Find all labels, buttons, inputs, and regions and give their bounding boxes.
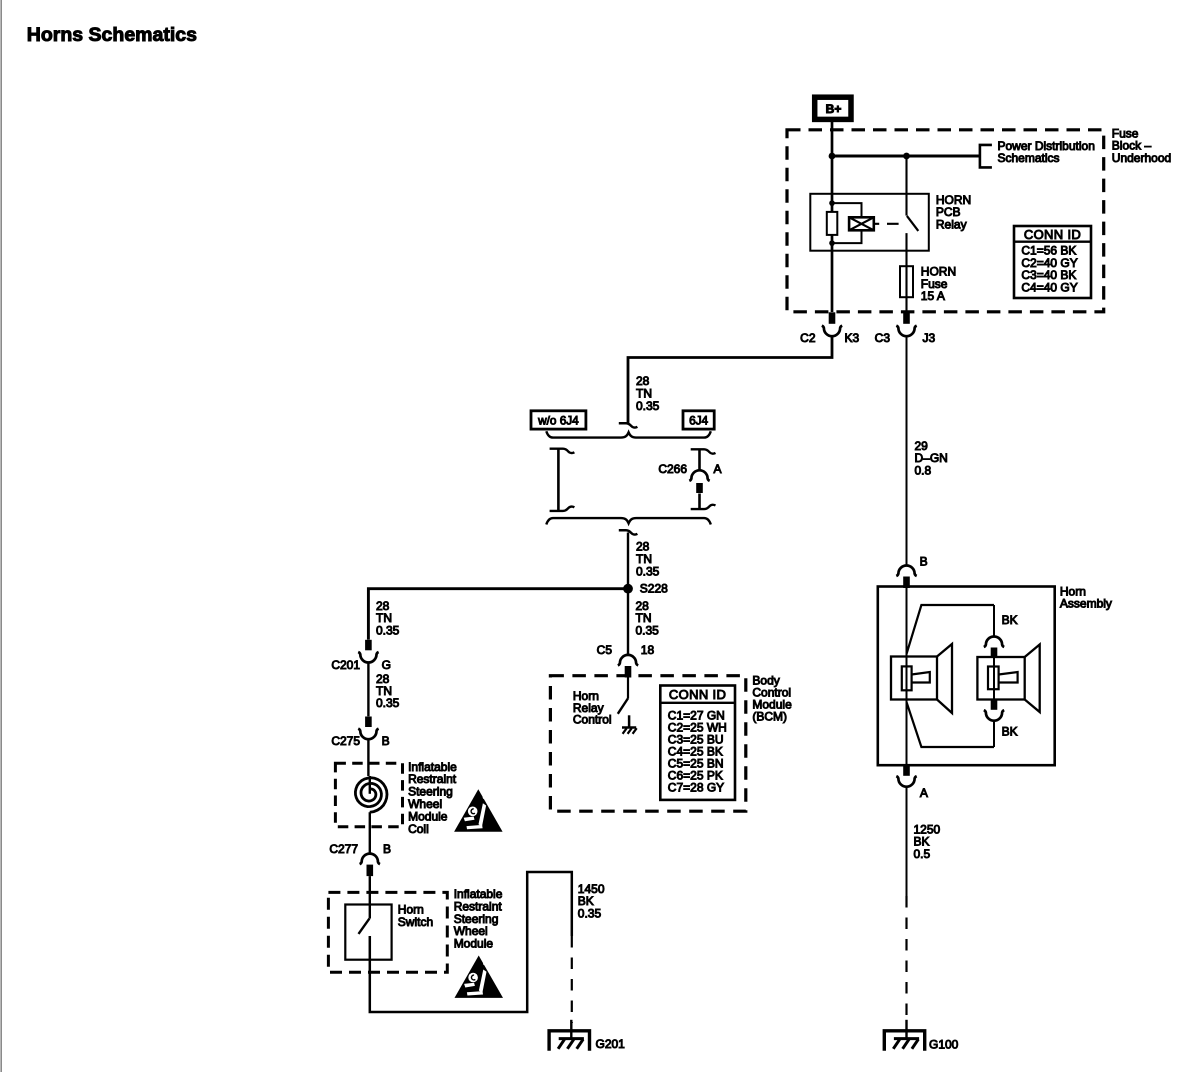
- svg-text:C2: C2: [800, 331, 816, 345]
- fuse block underhood dashed box: [787, 130, 1104, 312]
- svg-text:15 A: 15 A: [921, 289, 945, 303]
- svg-text:(BCM): (BCM): [752, 710, 787, 724]
- svg-text:B+: B+: [826, 102, 842, 116]
- wire end mark: [550, 507, 575, 511]
- wire option merge to S228: [627, 533, 629, 589]
- svg-text:C266: C266: [658, 462, 687, 476]
- wire C2 to middle branch, down to option split: [628, 336, 832, 424]
- SIR warning triangle (coil): [454, 789, 503, 831]
- svg-text:0.5: 0.5: [914, 847, 931, 861]
- wire end mark: [550, 449, 575, 453]
- power distribution reference bracket: [980, 145, 992, 168]
- svg-text:K3: K3: [845, 331, 860, 345]
- wire right horn bottom: [993, 720, 995, 747]
- svg-text:Relay: Relay: [936, 217, 967, 231]
- connector C2 K3: [829, 312, 836, 324]
- resistor (relay suppression): [827, 212, 838, 235]
- svg-text:C4=40 GY: C4=40 GY: [1021, 281, 1077, 295]
- dashed wire to G201: [571, 936, 573, 1023]
- svg-text:S228: S228: [640, 582, 668, 596]
- svg-text:G: G: [382, 658, 391, 672]
- svg-text:CONN ID: CONN ID: [1024, 227, 1081, 242]
- wire end mark: [619, 423, 638, 427]
- svg-text:Underhood: Underhood: [1112, 151, 1171, 165]
- ground G201: [549, 1031, 589, 1051]
- ground G100: [884, 1031, 924, 1051]
- svg-text:B: B: [382, 734, 390, 748]
- svg-text:C5: C5: [597, 643, 613, 657]
- junction dot: [829, 153, 836, 160]
- svg-text:B: B: [383, 842, 391, 856]
- svg-text:0.8: 0.8: [915, 463, 932, 477]
- svg-text:Schematics: Schematics: [998, 151, 1060, 165]
- wire S228 to left branch: [368, 589, 628, 640]
- svg-text:Assembly: Assembly: [1060, 597, 1112, 611]
- svg-text:A: A: [920, 786, 928, 800]
- connector C201 G: [365, 640, 372, 651]
- wire through left horn: [906, 588, 908, 765]
- svg-text:0.35: 0.35: [636, 623, 660, 637]
- svg-text:CONN ID: CONN ID: [669, 687, 726, 702]
- svg-text:G201: G201: [596, 1037, 626, 1051]
- right horn driver: [993, 658, 995, 700]
- horn switch blade: [359, 919, 370, 934]
- svg-text:18: 18: [641, 643, 655, 657]
- svg-text:C3: C3: [875, 331, 891, 345]
- wire C277 into horn switch: [369, 876, 371, 919]
- svg-text:Coil: Coil: [408, 822, 429, 836]
- svg-text:C277: C277: [329, 842, 358, 856]
- svg-text:Module: Module: [454, 937, 494, 951]
- option box 6J4: [683, 411, 714, 429]
- relay coil: [849, 217, 874, 230]
- relay coil-to-switch dashed link: [875, 223, 899, 225]
- connector C266 A (6J4 branch): [691, 449, 716, 453]
- wire J3 down to horn assembly B: [906, 336, 908, 567]
- horn link bottom (diagonal + horizontal): [907, 702, 995, 747]
- horn assembly box: [878, 587, 1055, 766]
- wire B+ down through relay to C2 pin: [831, 119, 834, 312]
- wire coil to C277: [369, 812, 371, 854]
- relay box outline: [810, 194, 929, 251]
- page edge line: [0, 0, 2, 1072]
- wire C5 into BCM: [627, 678, 629, 699]
- svg-text:BK: BK: [1002, 725, 1018, 739]
- svg-text:Control: Control: [573, 713, 612, 727]
- svg-text:0.35: 0.35: [578, 906, 602, 920]
- svg-text:0.35: 0.35: [636, 564, 660, 578]
- wire power bus: [832, 155, 980, 158]
- brace bottom (option merge): [546, 518, 711, 524]
- svg-text:0.35: 0.35: [376, 696, 400, 710]
- junction dot: [829, 240, 835, 246]
- dashed wire to G100: [905, 896, 907, 1022]
- splice S228: [623, 584, 633, 594]
- wire relay switch to fuse to C3 pin: [905, 233, 907, 312]
- wire bus to relay switch: [905, 156, 907, 216]
- svg-text:Horns Schematics: Horns Schematics: [27, 24, 197, 46]
- wire to right horn top: [993, 605, 995, 637]
- battery feed symbol B+: [815, 97, 851, 119]
- brace top (option split): [546, 431, 711, 437]
- wire start mark: [619, 530, 638, 534]
- left horn driver: [891, 657, 937, 700]
- SIR coil dashed box: [335, 763, 402, 827]
- left horn bell: [937, 644, 952, 713]
- svg-text:w/o 6J4: w/o 6J4: [537, 413, 579, 427]
- connector C3 J3: [903, 312, 910, 324]
- svg-text:0.35: 0.35: [376, 623, 400, 637]
- svg-text:B: B: [920, 554, 928, 568]
- BCM horn relay driver switch blade: [618, 698, 628, 714]
- SIR warning triangle (module): [455, 956, 504, 998]
- connector C277 B: [360, 854, 380, 864]
- svg-text:Switch: Switch: [398, 915, 433, 929]
- svg-text:C7=28 GY: C7=28 GY: [668, 780, 724, 794]
- connector A (horn assembly): [903, 766, 910, 776]
- BCM internal ground: [628, 715, 631, 727]
- junction dot: [903, 153, 910, 160]
- CONN ID table (fuse block): [1014, 226, 1091, 298]
- wire A down: [906, 786, 908, 896]
- option box w/o 6J4: [531, 411, 586, 429]
- junction dot: [829, 200, 835, 206]
- svg-text:0.35: 0.35: [636, 399, 660, 413]
- relay coil bracket wires: [832, 203, 862, 243]
- wire option w/o 6J4 branch: [557, 449, 560, 511]
- svg-text:G100: G100: [929, 1037, 959, 1051]
- connector right horn top: [984, 637, 1004, 648]
- wire C201 to C275: [367, 662, 369, 717]
- svg-text:J3: J3: [923, 331, 936, 345]
- relay switch blade: [907, 216, 918, 231]
- horn link top (diagonal + horizontal): [907, 605, 995, 654]
- horn switch box: [345, 905, 391, 960]
- connector right horn bottom: [991, 700, 998, 710]
- fuse HORN 15 A: [900, 266, 913, 297]
- CONN ID table (BCM): [660, 686, 735, 800]
- svg-text:C201: C201: [331, 658, 360, 672]
- horn switch module dashed box: [328, 892, 447, 972]
- svg-text:A: A: [714, 462, 722, 476]
- wire horn switch to ground run: [370, 872, 572, 1012]
- BCM dashed box: [550, 676, 745, 812]
- wire C275 to coil: [367, 739, 369, 777]
- right horn bell: [1025, 645, 1040, 713]
- SIR coil spiral: [369, 776, 371, 794]
- connector C275 B: [365, 717, 372, 728]
- svg-text:6J4: 6J4: [689, 413, 708, 427]
- connector B (horn assembly): [896, 566, 916, 577]
- wire S228 down to C5: [627, 589, 629, 656]
- svg-text:BK: BK: [1002, 613, 1018, 627]
- svg-text:C275: C275: [331, 734, 360, 748]
